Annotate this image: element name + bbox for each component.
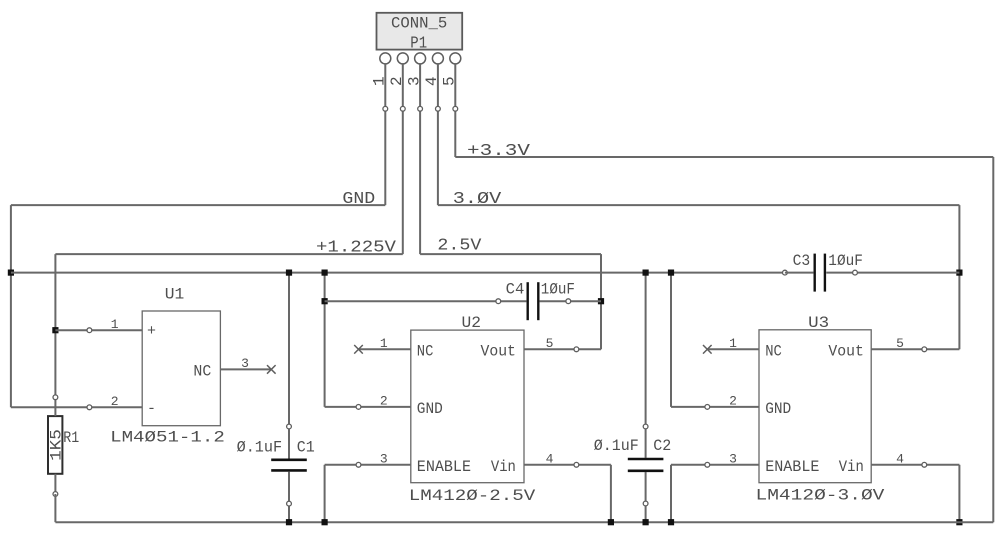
U1 pin 3 wire stub xyxy=(220,368,271,370)
wire U2 pin 3 ENABLE xyxy=(325,464,411,466)
wire pin4 down (3.0V) xyxy=(437,64,439,205)
svg-text:+3.3V: +3.3V xyxy=(467,142,531,161)
wire U3 pin 4 Vin xyxy=(871,464,959,466)
svg-text:LM4Ø51-1.2: LM4Ø51-1.2 xyxy=(110,428,225,446)
junction U2 GND on bus xyxy=(322,270,328,276)
wire U3 pin 2 GND xyxy=(671,406,759,408)
svg-text:4: 4 xyxy=(546,451,554,466)
wire +3.3V right edge vertical xyxy=(992,157,994,522)
wire GND to U1 pin 2 xyxy=(11,406,142,408)
svg-text:LM412Ø-3.ØV: LM412Ø-3.ØV xyxy=(756,486,885,504)
wire U3 Vin down to +3.3V rail xyxy=(958,465,960,522)
svg-text:C1: C1 xyxy=(297,439,315,457)
junction U2 ENABLE rail xyxy=(322,519,328,525)
wire GND bus horizontal xyxy=(11,272,785,274)
junction C2 bottom on rail xyxy=(643,519,649,525)
wire U3 pin 3 ENABLE xyxy=(671,464,759,466)
svg-text:ENABLE: ENABLE xyxy=(417,458,471,476)
op-amp U1 body LM4051 xyxy=(142,311,220,426)
junction 3.0V / C3 / U3 Vout xyxy=(956,270,962,276)
C4 right wire xyxy=(540,300,601,302)
svg-text:LM412Ø-2.5V: LM412Ø-2.5V xyxy=(409,487,536,505)
svg-text:2.5V: 2.5V xyxy=(437,237,482,256)
junction U3 GND on bus xyxy=(668,270,674,276)
U3 pin 4 end circle xyxy=(922,462,927,467)
connector pin 3 end circle xyxy=(418,106,423,111)
svg-text:CONN_5: CONN_5 xyxy=(391,15,447,33)
svg-text:3: 3 xyxy=(380,451,388,466)
junction U2 Vin rail xyxy=(608,519,614,525)
svg-text:R1: R1 xyxy=(63,429,79,447)
svg-text:C2: C2 xyxy=(653,437,671,455)
connector P1 pin 5 pad circle xyxy=(450,53,461,64)
regulator U2 body LM4120 xyxy=(411,330,524,483)
svg-text:GND: GND xyxy=(342,190,375,209)
svg-text:+: + xyxy=(147,323,156,340)
svg-text:5: 5 xyxy=(546,336,554,351)
wire pin5 down (+3.3V) xyxy=(454,64,456,157)
C1 top pin circle xyxy=(287,424,292,429)
svg-text:Vout: Vout xyxy=(481,342,516,360)
U2 pin 3 end circle xyxy=(356,462,361,467)
svg-text:U1: U1 xyxy=(165,286,185,304)
svg-text:NC: NC xyxy=(417,342,434,360)
C2 bottom pin circle xyxy=(643,501,648,506)
svg-text:2: 2 xyxy=(380,394,388,409)
wire U2 Vin down to rail xyxy=(610,465,612,522)
R1 top pin stub xyxy=(54,397,56,416)
wire 2.5V vertical xyxy=(600,254,602,349)
svg-text:2: 2 xyxy=(729,394,737,409)
connector P1 CONN_5 body xyxy=(377,13,463,50)
svg-text:GND: GND xyxy=(765,400,791,418)
svg-text:Ø.1uF: Ø.1uF xyxy=(237,439,283,457)
junction C1 bottom on rail xyxy=(286,519,292,525)
capacitor C4 left wire xyxy=(325,300,527,302)
junction C4 branch xyxy=(322,298,328,304)
wire U2 pin 5 Vout xyxy=(524,348,601,350)
junction 2.5V / C4 / U2 Vout xyxy=(598,298,604,304)
connector P1 pin 1 pad circle xyxy=(380,53,391,64)
wire C3 right to 3.0V junction xyxy=(855,272,959,274)
R1 top pin circle xyxy=(53,395,58,400)
svg-text:1ØuF: 1ØuF xyxy=(828,252,863,270)
wire +3.3V bottom rail xyxy=(55,521,993,523)
wire GND left edge vertical xyxy=(10,205,12,407)
capacitor C2 plates xyxy=(628,458,664,461)
R1 bottom pin circle xyxy=(53,492,58,497)
connector pin 1 end circle xyxy=(383,106,388,111)
wire U2 ENABLE vertical to rail xyxy=(324,465,326,522)
capacitor C4 plates xyxy=(527,282,529,320)
U1 pin 2 end circle xyxy=(87,405,92,410)
U2 pin 2 end circle xyxy=(356,405,361,410)
wire 3.0V vertical xyxy=(958,205,960,349)
svg-text:-: - xyxy=(147,400,156,417)
junction U3 ENABLE rail xyxy=(668,519,674,525)
connector P1 pin 3 pad circle xyxy=(415,53,426,64)
regulator U3 body LM4120 xyxy=(759,330,871,483)
svg-text:2: 2 xyxy=(111,394,119,409)
capacitor C1 plates xyxy=(271,458,307,461)
C2 top pin circle xyxy=(643,424,648,429)
wire U2 GND vertical from bus xyxy=(324,273,326,407)
svg-text:+1.225V: +1.225V xyxy=(316,239,397,258)
svg-text:4: 4 xyxy=(896,451,904,466)
U1 pin 1 end circle xyxy=(87,328,92,333)
wire U3 ENABLE vertical to rail xyxy=(670,465,672,522)
svg-text:1: 1 xyxy=(111,317,119,332)
R1 bottom pin stub xyxy=(54,474,56,494)
svg-text:C3: C3 xyxy=(793,252,811,270)
R1 bottom wire to rail xyxy=(54,494,56,522)
U3 pin 5 end circle xyxy=(922,347,927,352)
junction C1 top on GND bus xyxy=(286,270,292,276)
connector pin 5 end circle xyxy=(453,106,458,111)
svg-text:U2: U2 xyxy=(462,314,482,332)
wire U2 pin 4 Vin xyxy=(524,464,611,466)
wire U2 pin 2 GND xyxy=(325,406,411,408)
U3 pin 3 end circle xyxy=(705,462,710,467)
junction +1.225V / U1 pin1 xyxy=(52,327,58,333)
svg-text:NC: NC xyxy=(193,362,211,380)
wire 3.0V horizontal xyxy=(438,204,960,206)
U3 pin 1 NC wire stub xyxy=(707,348,759,350)
wire 2.5V horizontal xyxy=(420,253,601,255)
capacitor C2 top wire xyxy=(645,273,647,458)
svg-text:Vout: Vout xyxy=(828,342,863,360)
U2 pin 1 NC wire stub xyxy=(359,348,411,350)
wire +3.3V horizontal xyxy=(455,156,993,158)
C3 right pin circle xyxy=(853,270,858,275)
junction U3 Vin rail xyxy=(956,519,962,525)
svg-text:GND: GND xyxy=(417,400,443,418)
C2 bottom wire xyxy=(645,472,647,522)
wire pin3 down (2.5V) xyxy=(419,64,421,254)
svg-text:3: 3 xyxy=(729,451,737,466)
resistor R1 body xyxy=(48,416,62,474)
wire GND horizontal to left edge xyxy=(11,204,385,206)
svg-text:Ø.1uF: Ø.1uF xyxy=(594,437,639,455)
C4 right pin circle xyxy=(566,299,571,304)
svg-text:P1: P1 xyxy=(410,35,427,54)
junction GND bus left xyxy=(8,270,14,276)
connector P1 pin 4 pad circle xyxy=(432,53,443,64)
C1 bottom wire xyxy=(288,472,290,523)
wire +1.225V horizontal xyxy=(55,253,402,255)
capacitor C3 left pin circle xyxy=(783,270,788,275)
C1 bottom pin circle xyxy=(287,501,292,506)
svg-text:3.ØV: 3.ØV xyxy=(453,190,502,209)
no-connect X on U3 pin 1 xyxy=(703,345,712,354)
svg-text:Vin: Vin xyxy=(491,458,516,476)
C4 left pin circle xyxy=(496,299,501,304)
U2 pin 5 end circle xyxy=(574,347,579,352)
U3 pin 2 end circle xyxy=(705,405,710,410)
connector P1 pin 2 pad circle xyxy=(397,53,408,64)
wire pin1 down (GND) xyxy=(384,64,386,205)
U2 pin 4 end circle xyxy=(574,462,579,467)
wire U3 pin 5 Vout xyxy=(871,348,959,350)
junction C2 top on bus xyxy=(643,270,649,276)
connector pin 4 end circle xyxy=(436,106,441,111)
C3 right stub xyxy=(826,272,855,274)
wire pin2 down (+1.225V) xyxy=(402,64,404,254)
wire +1.225V vertical to R1 xyxy=(54,254,56,397)
connector pin 2 end circle xyxy=(400,106,405,111)
svg-text:5: 5 xyxy=(896,336,904,351)
capacitor C1 wire top xyxy=(288,273,290,459)
no-connect X on U2 pin 1 xyxy=(354,345,363,354)
svg-text:NC: NC xyxy=(765,342,782,360)
svg-text:U3: U3 xyxy=(808,314,829,332)
svg-text:1ØuF: 1ØuF xyxy=(541,280,575,298)
svg-text:C4: C4 xyxy=(506,280,525,298)
C3 left stub xyxy=(785,272,814,274)
capacitor C3 plates xyxy=(814,254,816,292)
no-connect X on U1 pin 3 xyxy=(267,365,276,374)
wire U3 GND vertical from bus xyxy=(670,273,672,407)
svg-text:Vin: Vin xyxy=(839,458,864,476)
svg-text:ENABLE: ENABLE xyxy=(765,458,819,476)
wire to U1 pin 1 xyxy=(55,329,142,331)
